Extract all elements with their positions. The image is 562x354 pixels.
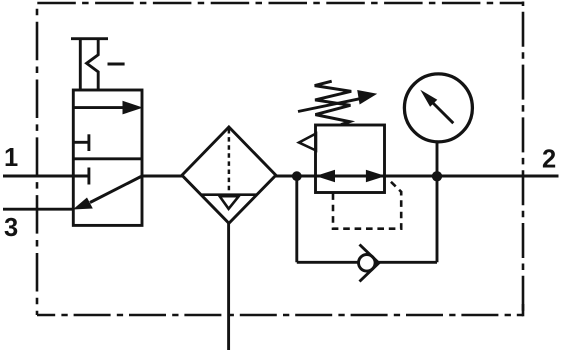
node: junction dot before regulator: [292, 171, 302, 181]
wire: main line valve to filter: [141, 175, 184, 178]
on-off valve V1: top box blocked port T: [73, 141, 89, 144]
filter F1: condensate triangle: [220, 196, 239, 209]
node: junction dot at gauge: [432, 171, 442, 181]
svg-text:3: 3: [4, 214, 18, 242]
svg-text:1: 1: [4, 144, 18, 172]
regulator R1: flow arrowhead left: [316, 170, 336, 182]
regulator R1: adjustment spring: [315, 81, 352, 125]
gauge G1: dial circle: [404, 74, 472, 142]
on-off valve V1: bottom box exhaust path 2->3 diagonal arrow: [90, 177, 141, 203]
on-off valve V1: top box flow path arrow 1->2: [73, 106, 127, 109]
on-off valve V1: body: [73, 90, 142, 225]
enclosure border top (dash-dot): [37, 2, 523, 5]
regulator R1: adjustment arrow: [298, 99, 360, 112]
on-off valve V1: bottom box blocked port 1 T-bar: [87, 168, 90, 185]
wire: main line filter to regulator: [275, 175, 316, 178]
enclosure border bottom (dash-dot): [37, 314, 523, 317]
check valve CV1: seat: [360, 245, 379, 282]
enclosure border right (dash-dot): [522, 2, 525, 316]
wire: port 3 exhaust line: [3, 208, 74, 211]
regulator R1: flow arrowhead right: [366, 170, 386, 182]
enclosure border left (dash-dot): [36, 3, 39, 315]
filter F1: separator bowl line: [202, 193, 257, 196]
filter F1: diamond body: [182, 127, 276, 223]
wire: bypass bottom line: [297, 261, 437, 264]
on-off valve V1: manual actuator top bar: [71, 37, 108, 40]
wire: port 1 supply line into valve (blocked at T): [3, 175, 89, 178]
on-off valve V1: minus sign: [108, 63, 125, 66]
regulator R1: body box: [316, 125, 385, 193]
filter F1: filter element (dashed): [228, 129, 231, 194]
wire: bypass right vertical: [436, 176, 439, 262]
gauge G1: needle: [433, 103, 453, 123]
wire: main line through regulator to port 2: [316, 175, 559, 178]
on-off valve V1: actuator right stem with detent notch: [87, 39, 99, 90]
on-off valve V1: position divider: [73, 157, 142, 160]
regulator R1: pilot line (dashed): [333, 179, 401, 229]
on-off valve V1: actuator left stem: [79, 39, 82, 90]
svg-text:2: 2: [542, 146, 556, 174]
regulator R1: relief vent triangle: [299, 134, 316, 151]
check valve CV1: ball: [359, 254, 376, 271]
enclosure border bottom-right corner elbow: [522, 304, 525, 316]
filter F1: drain line: [227, 223, 230, 350]
wire: bypass left vertical: [295, 176, 298, 262]
gauge G1: stem: [436, 140, 439, 176]
